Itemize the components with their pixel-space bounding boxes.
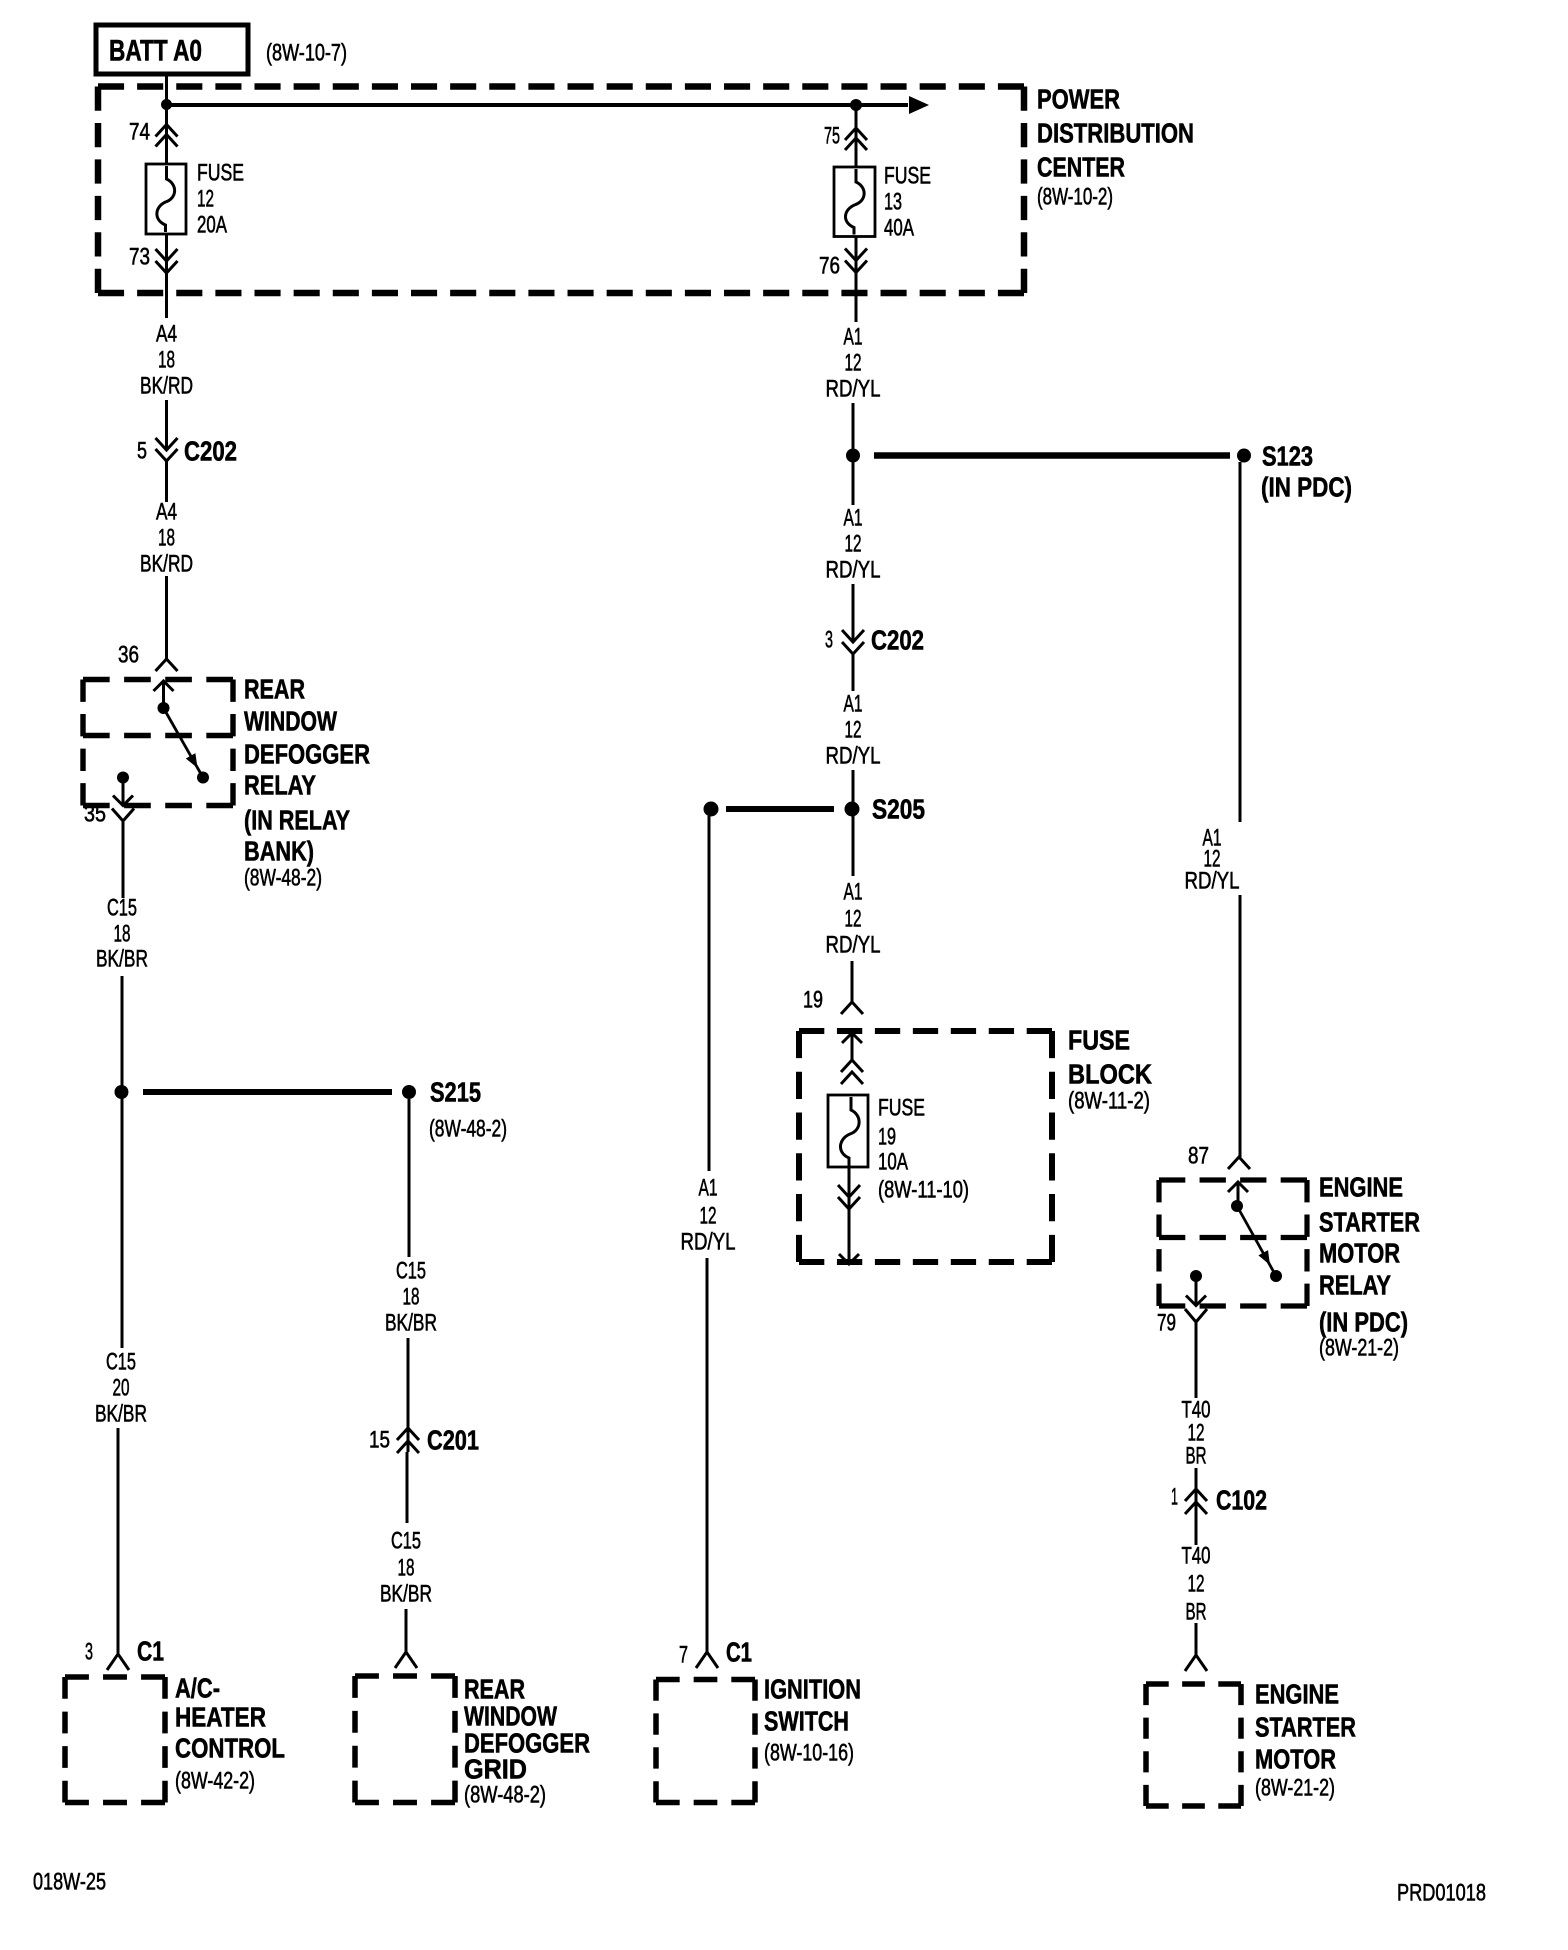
svg-text:C1: C1 [726, 1637, 752, 1668]
svg-text:A1: A1 [844, 879, 863, 906]
svg-text:MOTOR: MOTOR [1255, 1744, 1336, 1775]
svg-text:A1: A1 [699, 1175, 718, 1202]
svg-text:12: 12 [845, 531, 862, 558]
svg-text:ENGINE: ENGINE [1319, 1172, 1403, 1203]
svg-text:S205: S205 [872, 794, 925, 825]
svg-text:T40: T40 [1182, 1543, 1211, 1570]
svg-text:BANK): BANK) [244, 836, 314, 867]
svg-text:RD/YL: RD/YL [826, 743, 881, 770]
svg-text:75: 75 [824, 123, 840, 150]
svg-text:C202: C202 [871, 625, 924, 656]
svg-text:C15: C15 [391, 1528, 421, 1555]
svg-text:DISTRIBUTION: DISTRIBUTION [1037, 118, 1194, 149]
svg-text:C201: C201 [427, 1425, 479, 1456]
svg-text:12: 12 [845, 906, 862, 933]
svg-text:DEFOGGER: DEFOGGER [244, 739, 370, 770]
svg-text:18: 18 [158, 347, 175, 374]
svg-text:12: 12 [197, 186, 214, 213]
svg-text:76: 76 [819, 253, 840, 280]
svg-text:87: 87 [1188, 1143, 1209, 1170]
svg-text:(8W-10-16): (8W-10-16) [764, 1740, 854, 1767]
svg-text:C1: C1 [137, 1636, 164, 1667]
svg-text:12: 12 [845, 350, 862, 377]
svg-text:IGNITION: IGNITION [764, 1674, 861, 1705]
svg-text:BATT A0: BATT A0 [109, 35, 202, 68]
svg-text:18: 18 [403, 1284, 420, 1311]
svg-text:3: 3 [825, 627, 833, 654]
svg-text:A4: A4 [156, 321, 177, 348]
svg-text:018W-25: 018W-25 [33, 1869, 106, 1896]
svg-text:FUSE: FUSE [197, 160, 244, 187]
svg-text:CENTER: CENTER [1037, 152, 1125, 183]
svg-text:(8W-10-2): (8W-10-2) [1037, 184, 1113, 211]
svg-text:A/C-: A/C- [175, 1673, 220, 1704]
svg-text:40A: 40A [884, 215, 914, 242]
svg-text:79: 79 [1157, 1310, 1176, 1337]
svg-text:(8W-11-2): (8W-11-2) [1068, 1088, 1150, 1115]
svg-text:GRID: GRID [464, 1754, 527, 1785]
svg-text:STARTER: STARTER [1255, 1712, 1356, 1743]
svg-text:(8W-48-2): (8W-48-2) [244, 865, 322, 892]
svg-text:PRD01018: PRD01018 [1397, 1880, 1486, 1907]
svg-text:RD/YL: RD/YL [1185, 868, 1240, 895]
svg-text:FUSE: FUSE [878, 1095, 925, 1122]
svg-text:(8W-10-7): (8W-10-7) [266, 40, 347, 67]
svg-text:RD/YL: RD/YL [826, 557, 881, 584]
svg-text:3: 3 [85, 1639, 93, 1666]
svg-text:A1: A1 [844, 691, 863, 718]
svg-text:FUSE: FUSE [1068, 1025, 1130, 1056]
svg-text:5: 5 [137, 438, 147, 465]
svg-text:18: 18 [398, 1555, 415, 1582]
svg-text:20: 20 [113, 1375, 130, 1402]
svg-text:FUSE: FUSE [884, 163, 931, 190]
svg-text:12: 12 [845, 717, 862, 744]
svg-text:BK/RD: BK/RD [140, 551, 193, 578]
svg-text:7: 7 [679, 1642, 688, 1669]
svg-text:REAR: REAR [244, 674, 305, 705]
svg-text:BK/BR: BK/BR [96, 946, 148, 973]
svg-text:(IN PDC): (IN PDC) [1261, 472, 1352, 503]
svg-text:HEATER: HEATER [175, 1702, 266, 1733]
svg-text:(8W-11-10): (8W-11-10) [878, 1177, 969, 1204]
svg-text:74: 74 [129, 119, 150, 146]
svg-text:35: 35 [84, 801, 106, 828]
svg-text:C15: C15 [106, 1349, 136, 1376]
svg-text:C102: C102 [1216, 1485, 1267, 1516]
svg-text:BR: BR [1186, 1599, 1207, 1626]
svg-text:(8W-21-2): (8W-21-2) [1319, 1335, 1399, 1362]
svg-text:C15: C15 [107, 895, 137, 922]
svg-text:A1: A1 [844, 505, 863, 532]
svg-text:12: 12 [1188, 1571, 1205, 1598]
svg-text:73: 73 [129, 244, 150, 271]
svg-text:CONTROL: CONTROL [175, 1733, 285, 1764]
svg-text:RD/YL: RD/YL [826, 932, 881, 959]
svg-text:BK/BR: BK/BR [380, 1581, 432, 1608]
svg-text:STARTER: STARTER [1319, 1207, 1420, 1238]
svg-text:RD/YL: RD/YL [681, 1229, 736, 1256]
svg-text:10A: 10A [878, 1149, 908, 1176]
svg-text:S123: S123 [1262, 441, 1313, 472]
svg-text:15: 15 [369, 1427, 390, 1454]
svg-text:A4: A4 [156, 499, 177, 526]
svg-text:(8W-48-2): (8W-48-2) [464, 1782, 546, 1809]
svg-text:(IN PDC): (IN PDC) [1319, 1307, 1408, 1338]
svg-text:1: 1 [1171, 1484, 1178, 1511]
svg-text:POWER: POWER [1037, 84, 1120, 115]
svg-text:RELAY: RELAY [1319, 1270, 1391, 1301]
svg-text:19: 19 [878, 1124, 896, 1151]
svg-text:BK/BR: BK/BR [95, 1401, 147, 1428]
svg-text:(IN RELAY: (IN RELAY [244, 805, 350, 836]
svg-text:20A: 20A [197, 212, 227, 239]
svg-text:ENGINE: ENGINE [1255, 1679, 1339, 1710]
svg-text:A1: A1 [844, 324, 863, 351]
svg-text:C15: C15 [396, 1258, 426, 1285]
svg-text:(8W-21-2): (8W-21-2) [1255, 1775, 1335, 1802]
svg-text:C202: C202 [184, 436, 237, 467]
svg-text:(8W-42-2): (8W-42-2) [175, 1768, 255, 1795]
svg-text:BK/RD: BK/RD [140, 373, 193, 400]
svg-text:WINDOW: WINDOW [244, 706, 337, 737]
svg-text:36: 36 [118, 642, 139, 669]
svg-text:12: 12 [700, 1203, 717, 1230]
svg-text:RELAY: RELAY [244, 770, 316, 801]
svg-text:BR: BR [1186, 1443, 1207, 1470]
svg-text:13: 13 [884, 189, 902, 216]
svg-text:(8W-48-2): (8W-48-2) [429, 1116, 507, 1143]
svg-text:RD/YL: RD/YL [826, 376, 881, 403]
svg-text:MOTOR: MOTOR [1319, 1238, 1400, 1269]
svg-text:BLOCK: BLOCK [1068, 1059, 1152, 1090]
svg-text:SWITCH: SWITCH [764, 1706, 849, 1737]
svg-text:S215: S215 [430, 1077, 481, 1108]
svg-text:19: 19 [803, 987, 823, 1014]
svg-text:18: 18 [114, 921, 131, 948]
svg-text:BK/BR: BK/BR [385, 1310, 437, 1337]
svg-text:18: 18 [158, 525, 175, 552]
